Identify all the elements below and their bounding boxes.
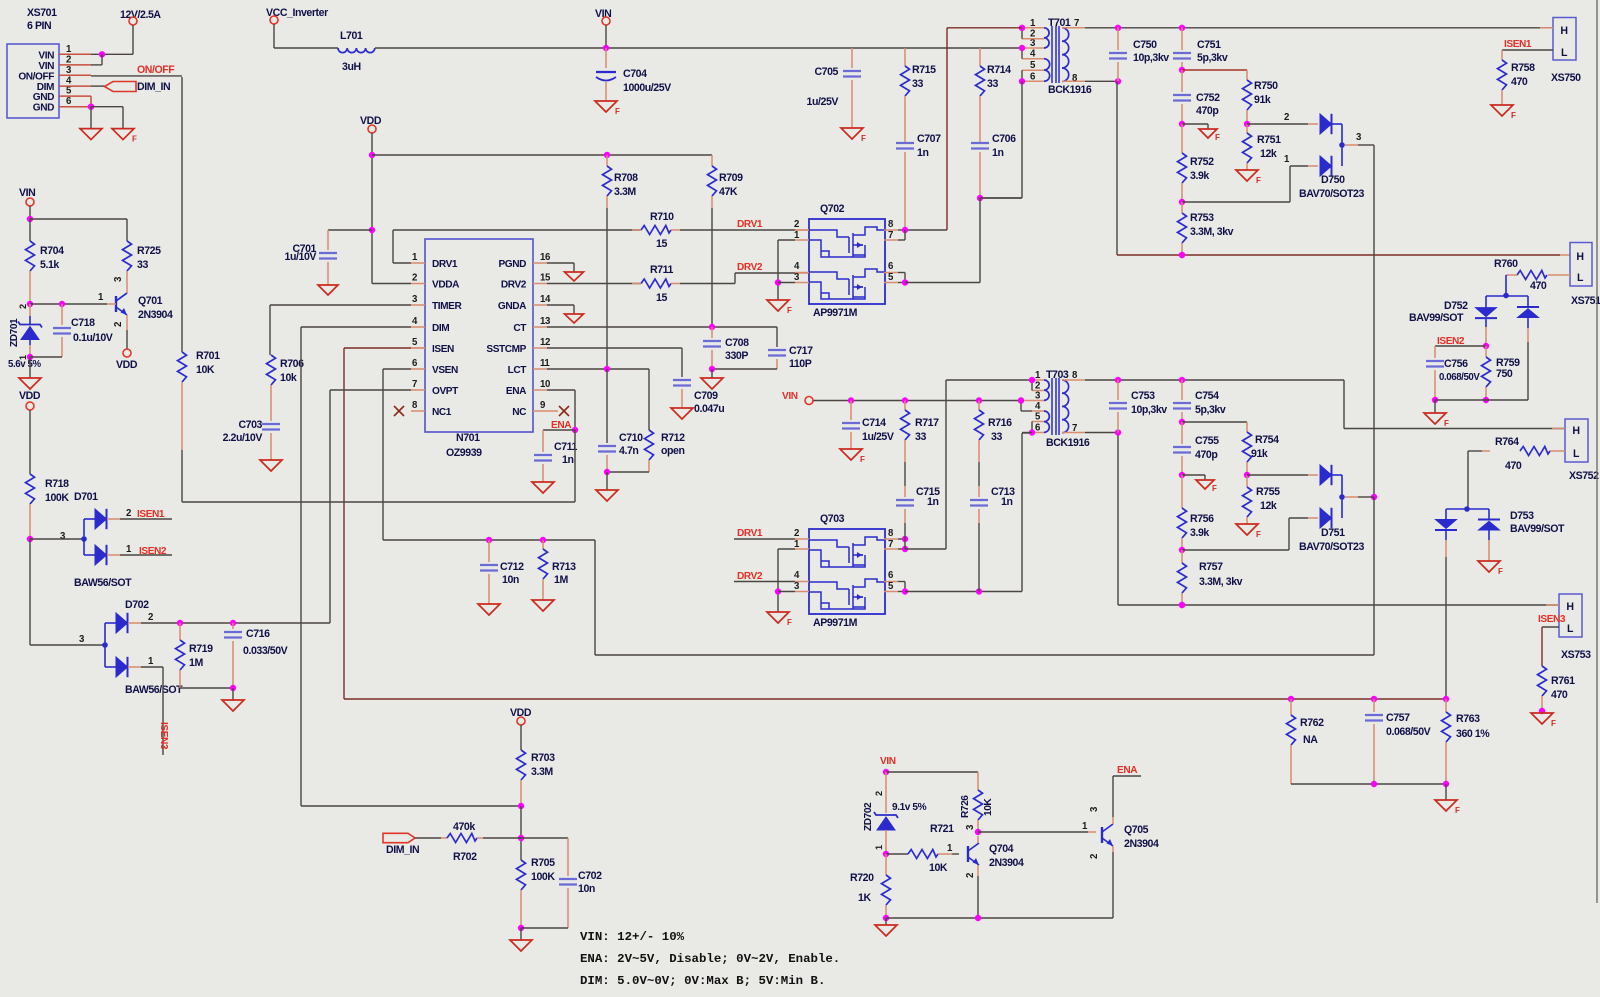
svg-text:7: 7 xyxy=(412,379,417,390)
ground C701 xyxy=(318,285,338,295)
resistor R710 xyxy=(632,211,680,250)
capacitor C753 xyxy=(1109,380,1167,433)
ground C703 xyxy=(260,460,282,471)
wire NC x xyxy=(547,406,569,416)
capacitor C716 xyxy=(224,623,288,700)
svg-text:C756: C756 xyxy=(1444,358,1468,370)
capacitor C712 xyxy=(480,537,524,604)
svg-text:L: L xyxy=(1577,272,1584,284)
sheet border right xyxy=(1596,0,1598,903)
svg-text:C716: C716 xyxy=(246,628,270,640)
resistor R752 xyxy=(1178,124,1215,205)
note DIM xyxy=(580,974,825,988)
svg-text:ENA: ENA xyxy=(1117,765,1138,776)
wire Q703 pin56 node xyxy=(898,433,1032,595)
svg-text:5.1k: 5.1k xyxy=(40,259,59,271)
svg-text:F: F xyxy=(1551,719,1556,728)
svg-text:1n: 1n xyxy=(562,454,573,466)
wire T701 pin6 down xyxy=(977,81,1022,201)
svg-text:C752: C752 xyxy=(1196,92,1220,104)
resistor R715 xyxy=(901,48,937,143)
svg-text:5p,3kv: 5p,3kv xyxy=(1197,52,1228,64)
svg-text:ENA: ENA xyxy=(506,386,527,397)
svg-text:DRV2: DRV2 xyxy=(737,571,763,582)
svg-text:10K: 10K xyxy=(196,364,215,376)
transformer T701 xyxy=(1022,17,1092,96)
svg-text:C755: C755 xyxy=(1195,435,1219,447)
wire ISEN1 xyxy=(1502,50,1553,60)
net label ON/OFF xyxy=(137,64,175,76)
net label ENA bottom xyxy=(1113,765,1141,776)
wire PGND xyxy=(547,263,574,272)
svg-text:1M: 1M xyxy=(189,657,203,669)
svg-text:VIN: VIN xyxy=(19,187,35,199)
svg-text:R764: R764 xyxy=(1495,436,1519,448)
diode D702 xyxy=(102,599,183,696)
svg-text:3.3M: 3.3M xyxy=(614,186,636,198)
resistor R726 xyxy=(960,772,994,835)
wire pin5 gnd xyxy=(90,96,92,107)
svg-text:F: F xyxy=(1215,133,1220,142)
svg-text:R705: R705 xyxy=(531,857,555,869)
resistor R764 xyxy=(1468,436,1565,509)
ground C710 xyxy=(596,490,618,501)
wire ISEN2 node xyxy=(1435,343,1489,358)
svg-text:R708: R708 xyxy=(614,172,638,184)
svg-text:DIM: 5.0V~0V; 0V:Max B; 5V:M: DIM: 5.0V~0V; 0V:Max B; 5V:Min B. xyxy=(580,974,825,988)
svg-text:F: F xyxy=(860,455,865,464)
svg-text:F: F xyxy=(1212,484,1217,493)
svg-text:15: 15 xyxy=(540,273,551,284)
connector XS751 xyxy=(1570,243,1600,308)
resistor R713 xyxy=(539,537,577,600)
svg-text:XS753: XS753 xyxy=(1561,649,1591,661)
ground R755 xyxy=(1236,524,1261,539)
ground PGND xyxy=(565,272,584,281)
wire ON/OFF pin3 xyxy=(91,75,182,77)
wire LCT run xyxy=(547,366,649,372)
wire T703 tie56 xyxy=(1022,422,1035,436)
svg-text:R717: R717 xyxy=(915,417,939,429)
svg-text:33: 33 xyxy=(137,259,148,271)
wire T701 tie12 xyxy=(1019,25,1025,39)
svg-text:D702: D702 xyxy=(125,599,149,611)
terminal 12V/2.5A xyxy=(120,9,161,54)
svg-text:R753: R753 xyxy=(1190,212,1214,224)
svg-text:4.7n: 4.7n xyxy=(619,445,638,457)
svg-text:33: 33 xyxy=(912,78,923,90)
wire C754 to R754 xyxy=(1182,422,1247,432)
resistor R761 xyxy=(1538,666,1576,714)
svg-text:OZ9939: OZ9939 xyxy=(446,447,482,459)
net label VIN bottom xyxy=(880,756,978,775)
svg-text:C707: C707 xyxy=(917,133,941,145)
ground R761 xyxy=(1531,713,1556,728)
svg-text:F: F xyxy=(1444,419,1449,428)
wire DRV2 to Q702 xyxy=(680,273,809,284)
svg-text:1n: 1n xyxy=(917,147,928,159)
wire pin6 gnd xyxy=(88,104,123,129)
wire XS753 H xyxy=(1118,433,1559,609)
svg-text:C708: C708 xyxy=(725,337,749,349)
resistor R702 xyxy=(415,821,521,863)
svg-text:L: L xyxy=(1561,47,1568,59)
svg-text:C705: C705 xyxy=(814,66,838,78)
wire CT run xyxy=(547,324,777,347)
wire maroon Q702 to T701 xyxy=(905,28,1022,230)
svg-text:2N3904: 2N3904 xyxy=(989,857,1024,869)
wire VSEN long xyxy=(383,145,1377,655)
svg-text:R754: R754 xyxy=(1255,434,1279,446)
capacitor C756 xyxy=(1426,358,1480,403)
svg-text:GND: GND xyxy=(33,92,54,103)
svg-text:C703: C703 xyxy=(238,419,262,431)
svg-text:10n: 10n xyxy=(578,883,595,895)
svg-text:D751: D751 xyxy=(1321,527,1345,539)
wire TIMER run xyxy=(270,305,411,355)
svg-text:F: F xyxy=(1455,806,1460,815)
resistor R706 xyxy=(267,355,305,421)
svg-text:C718: C718 xyxy=(71,317,95,329)
svg-text:R713: R713 xyxy=(552,561,576,573)
capacitor C711 xyxy=(534,430,578,482)
resistor R709 xyxy=(708,155,744,327)
svg-text:330P: 330P xyxy=(725,350,748,362)
ground C705 xyxy=(841,128,866,143)
svg-text:C714: C714 xyxy=(862,417,886,429)
svg-text:R755: R755 xyxy=(1256,486,1280,498)
svg-text:VSEN: VSEN xyxy=(432,365,458,376)
wire ISEN maroon xyxy=(344,348,1449,702)
net label ISEN3 right xyxy=(1538,614,1566,625)
net label DRV2 q703 xyxy=(734,571,795,582)
svg-text:BAW56/SOT: BAW56/SOT xyxy=(74,577,132,589)
svg-text:2: 2 xyxy=(794,528,799,539)
IC N701 OZ9939 xyxy=(411,239,551,459)
ground C712 xyxy=(478,604,500,615)
svg-text:R726: R726 xyxy=(960,795,971,818)
inductor L701 xyxy=(338,30,375,73)
svg-text:Q701: Q701 xyxy=(138,295,163,307)
svg-text:2: 2 xyxy=(1089,854,1100,859)
capacitor C713 xyxy=(970,486,1015,592)
svg-text:470: 470 xyxy=(1505,460,1522,472)
resistor R701 xyxy=(178,350,221,502)
resistor R719 xyxy=(176,623,234,688)
svg-text:R762: R762 xyxy=(1300,717,1324,729)
wire ENA down xyxy=(182,430,575,502)
wire VCC to L701 xyxy=(274,47,338,49)
svg-text:0.1u/10V: 0.1u/10V xyxy=(73,332,113,344)
diode D750 xyxy=(1247,112,1374,200)
wire VDD vertical xyxy=(360,115,411,284)
svg-text:100K: 100K xyxy=(45,492,69,504)
svg-text:10n: 10n xyxy=(502,574,519,586)
wire C750 low to XS751 xyxy=(1117,81,1570,258)
svg-text:470: 470 xyxy=(1551,689,1568,701)
wire R718 down xyxy=(30,539,105,645)
svg-text:ON/OFF: ON/OFF xyxy=(137,64,175,76)
diode D752 xyxy=(1409,296,1539,400)
ground R705 xyxy=(510,940,532,951)
net label ISEN1 left xyxy=(120,509,172,520)
capacitor C702 xyxy=(521,838,602,928)
wire T701 pin7 out xyxy=(1085,25,1553,31)
svg-text:VDDA: VDDA xyxy=(432,280,460,291)
ground R713 xyxy=(532,600,554,611)
wire T703 pin8 out xyxy=(1085,377,1565,429)
svg-text:F: F xyxy=(1256,530,1261,539)
svg-text:R751: R751 xyxy=(1257,134,1281,146)
ground Q704 xyxy=(875,925,897,936)
wire Q702 pin56 node xyxy=(898,198,1022,286)
svg-text:Q703: Q703 xyxy=(820,513,845,525)
wire pin1 to 12V xyxy=(91,51,133,57)
connector XS701 xyxy=(7,7,91,118)
note VIN xyxy=(580,930,685,944)
svg-text:2: 2 xyxy=(126,508,131,519)
svg-text:33: 33 xyxy=(915,431,926,443)
svg-text:2: 2 xyxy=(113,322,124,327)
svg-text:VDD: VDD xyxy=(116,359,138,371)
ground C716 xyxy=(222,700,244,711)
svg-text:R712: R712 xyxy=(661,432,685,444)
wire base node xyxy=(30,301,116,307)
svg-text:DRV2: DRV2 xyxy=(737,262,763,273)
terminal VCC_Inverter xyxy=(266,7,328,48)
wire SSTCMP run xyxy=(547,348,682,377)
resistor R711 xyxy=(632,264,680,304)
svg-text:3.9k: 3.9k xyxy=(1190,170,1209,182)
svg-text:ISEN3: ISEN3 xyxy=(158,722,169,750)
wire T703 tie34 xyxy=(1018,397,1032,411)
wire pin2 xyxy=(91,54,102,65)
svg-text:VIN: VIN xyxy=(880,756,896,767)
diode D753 xyxy=(1435,506,1565,699)
svg-text:1K: 1K xyxy=(858,892,871,904)
svg-text:XS701: XS701 xyxy=(27,7,57,19)
svg-text:Q705: Q705 xyxy=(1124,824,1149,836)
wire Q704 to Q705 xyxy=(978,831,1096,833)
capacitor C752 xyxy=(1173,70,1220,127)
resistor R758 xyxy=(1498,60,1536,105)
svg-text:12k: 12k xyxy=(1260,148,1277,160)
svg-text:ISEN3: ISEN3 xyxy=(1538,614,1566,625)
svg-text:470k: 470k xyxy=(453,821,475,833)
transistor Q701 xyxy=(98,276,173,330)
svg-text:470: 470 xyxy=(1530,280,1547,292)
svg-text:15: 15 xyxy=(656,238,667,250)
svg-text:C750: C750 xyxy=(1133,39,1157,51)
svg-text:VIN: VIN xyxy=(782,391,798,402)
svg-text:6 PIN: 6 PIN xyxy=(27,20,51,32)
svg-text:open: open xyxy=(661,445,685,457)
svg-text:0.068/50V: 0.068/50V xyxy=(1386,726,1431,738)
wire C752 gnd stub xyxy=(1182,124,1208,129)
svg-text:1n: 1n xyxy=(1001,496,1012,508)
svg-text:R718: R718 xyxy=(45,478,69,490)
svg-text:13: 13 xyxy=(540,316,551,327)
ground C709 xyxy=(671,408,693,419)
wire C751 to R750 xyxy=(1182,70,1247,80)
svg-text:R760: R760 xyxy=(1494,258,1518,270)
wire emitter bus xyxy=(886,915,1113,925)
svg-text:1n: 1n xyxy=(992,147,1003,159)
svg-text:VIN: VIN xyxy=(38,50,54,61)
svg-text:5p,3kv: 5p,3kv xyxy=(1195,404,1226,416)
svg-text:F: F xyxy=(787,306,792,315)
capacitor C703 xyxy=(223,419,280,460)
svg-text:C717: C717 xyxy=(789,345,813,357)
terminal VIN left xyxy=(19,187,35,222)
resistor R751 xyxy=(1243,124,1282,170)
svg-text:H: H xyxy=(1576,251,1583,263)
transformer T703 xyxy=(1021,369,1090,449)
svg-text:R719: R719 xyxy=(189,643,213,655)
svg-text:91k: 91k xyxy=(1254,94,1271,106)
capacitor C708 xyxy=(703,327,749,378)
svg-text:BAV99/SOT: BAV99/SOT xyxy=(1510,523,1565,535)
svg-text:R701: R701 xyxy=(196,350,220,362)
wire DRV1 run xyxy=(393,230,641,263)
svg-text:R710: R710 xyxy=(650,211,674,223)
resistor R708 xyxy=(603,155,639,369)
svg-text:10K: 10K xyxy=(929,862,948,874)
ground C708 xyxy=(701,378,723,389)
svg-text:C704: C704 xyxy=(623,68,647,80)
svg-text:2: 2 xyxy=(148,612,153,623)
svg-text:ENA: 2V~5V, Disable; 0V~2V, En: ENA: 2V~5V, Disable; 0V~2V, Enable. xyxy=(580,952,840,966)
ground ZD701 xyxy=(19,378,41,389)
svg-text:R715: R715 xyxy=(912,64,936,76)
wire GNDA xyxy=(547,305,574,314)
svg-text:F: F xyxy=(1256,176,1261,185)
svg-text:110P: 110P xyxy=(789,358,812,370)
ground C711 xyxy=(532,482,554,493)
terminal VIN mid xyxy=(782,391,1024,405)
wire Q703 pin78 node xyxy=(898,380,1032,552)
resistor R721 xyxy=(886,823,959,874)
svg-text:XS750: XS750 xyxy=(1551,72,1581,84)
svg-text:VIN: VIN xyxy=(38,61,54,72)
terminal VIN top xyxy=(595,8,611,51)
wire R703 to R705 xyxy=(518,806,524,860)
svg-text:F: F xyxy=(132,135,137,144)
wire main rail xyxy=(375,47,1022,49)
wire DRV1 to Q702 xyxy=(680,229,809,231)
svg-text:R752: R752 xyxy=(1190,156,1214,168)
svg-text:BCK1916: BCK1916 xyxy=(1048,84,1092,96)
svg-text:10: 10 xyxy=(540,379,550,390)
svg-text:2N3904: 2N3904 xyxy=(138,309,173,321)
svg-text:2: 2 xyxy=(412,273,417,284)
svg-text:1u/25V: 1u/25V xyxy=(807,96,839,108)
resistor R756 xyxy=(1178,475,1215,553)
svg-text:ISEN1: ISEN1 xyxy=(1504,39,1532,50)
capacitor C754 xyxy=(1173,380,1226,425)
svg-text:12V/2.5A: 12V/2.5A xyxy=(120,9,161,21)
svg-text:2: 2 xyxy=(18,304,28,309)
note ENA xyxy=(580,952,840,966)
svg-text:DRV1: DRV1 xyxy=(737,219,763,230)
connector XS750 xyxy=(1551,18,1581,85)
resistor R704 xyxy=(26,219,65,307)
svg-text:BAV99/SOT: BAV99/SOT xyxy=(1409,312,1464,324)
svg-text:ISEN: ISEN xyxy=(432,344,454,355)
capacitor C704 xyxy=(596,48,671,101)
resistor R762 xyxy=(1287,699,1325,784)
capacitor C751 xyxy=(1173,28,1228,73)
resistor R714 xyxy=(976,48,1012,143)
resistor R712 xyxy=(607,369,685,472)
svg-text:NC: NC xyxy=(512,407,527,418)
net label DRV1 q703 xyxy=(734,528,795,539)
svg-text:R761: R761 xyxy=(1551,675,1575,687)
svg-text:R750: R750 xyxy=(1254,80,1278,92)
svg-text:R721: R721 xyxy=(930,823,954,835)
svg-text:0.068/50V: 0.068/50V xyxy=(1439,372,1480,383)
ground XS701 right xyxy=(112,129,137,144)
ground Q702 xyxy=(767,300,792,315)
svg-text:T703: T703 xyxy=(1046,369,1069,381)
svg-text:470: 470 xyxy=(1511,76,1528,88)
svg-text:VDD: VDD xyxy=(19,390,41,402)
svg-text:12k: 12k xyxy=(1260,500,1277,512)
svg-text:R756: R756 xyxy=(1190,513,1214,525)
resistor R725 xyxy=(123,241,162,284)
svg-text:R725: R725 xyxy=(137,245,161,257)
svg-text:SSTCMP: SSTCMP xyxy=(486,344,526,355)
wire ISEN2 bottom xyxy=(1435,400,1528,413)
net label ISEN2 right xyxy=(1437,336,1465,347)
svg-text:7: 7 xyxy=(888,230,893,241)
transistor Q703 xyxy=(794,513,898,629)
capacitor C701 xyxy=(285,230,372,285)
svg-text:R711: R711 xyxy=(650,264,674,276)
svg-text:2: 2 xyxy=(874,791,884,796)
resistor R757 xyxy=(1178,550,1243,608)
capacitor C718 xyxy=(30,304,113,357)
svg-text:L701: L701 xyxy=(340,30,363,42)
svg-text:C751: C751 xyxy=(1197,39,1221,51)
svg-text:F: F xyxy=(615,107,620,116)
svg-text:DIM_IN: DIM_IN xyxy=(386,844,419,856)
ground C704 xyxy=(595,101,620,116)
svg-text:R758: R758 xyxy=(1511,62,1535,74)
svg-text:C757: C757 xyxy=(1386,712,1410,724)
wire NC1 x xyxy=(394,406,404,416)
svg-text:H: H xyxy=(1572,425,1579,437)
wire T703 tie12 xyxy=(1029,377,1035,391)
svg-text:10K: 10K xyxy=(983,798,994,816)
svg-text:D753: D753 xyxy=(1510,510,1534,522)
connector XS752 xyxy=(1565,419,1599,482)
svg-text:100K: 100K xyxy=(531,871,555,883)
svg-text:CT: CT xyxy=(513,323,527,334)
svg-text:D701: D701 xyxy=(74,491,98,503)
wire T701 tie34 xyxy=(1019,45,1025,59)
svg-text:H: H xyxy=(1566,601,1573,613)
wire C755 gnd stub xyxy=(1182,475,1205,480)
ground Q703 xyxy=(767,612,792,627)
svg-text:R709: R709 xyxy=(719,172,743,184)
svg-text:1000u/25V: 1000u/25V xyxy=(623,82,671,94)
svg-text:Q704: Q704 xyxy=(989,843,1014,855)
ground R758 xyxy=(1491,105,1516,120)
svg-text:XS752: XS752 xyxy=(1569,470,1599,482)
wire T703 pin7 out xyxy=(1085,429,1121,435)
svg-text:XS751: XS751 xyxy=(1571,295,1600,307)
